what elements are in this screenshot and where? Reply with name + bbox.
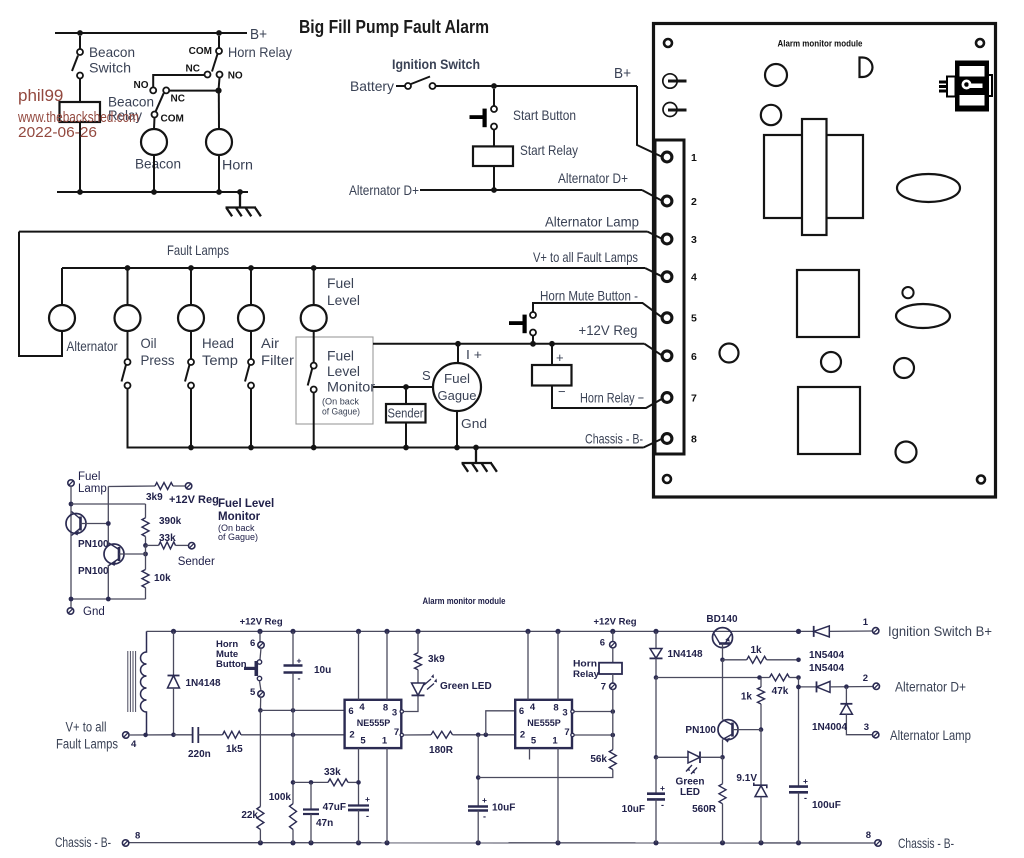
node horn relay COM tap: [216, 30, 222, 36]
svg-text:Horn: Horn: [573, 659, 597, 670]
node +12V rail junction: [555, 629, 560, 634]
capacitor 100uF: [798, 678, 800, 787]
svg-text:9.1V: 9.1V: [736, 773, 757, 784]
wire horn mute button to terminal 5: [533, 303, 663, 318]
wire pin7 to 56k node: [574, 734, 613, 736]
svg-text:7: 7: [601, 682, 606, 693]
terminal 3 Alternator Lamp: [873, 732, 879, 738]
node beacon relay coil gnd: [77, 189, 83, 195]
contact arm horn relay COM-NC: [212, 54, 218, 72]
switch Air Filter: [248, 359, 254, 365]
wire sender stub: [405, 387, 407, 404]
svg-text:+: +: [482, 795, 487, 805]
svg-text:1: 1: [863, 617, 869, 628]
svg-text:Horn Relay −: Horn Relay −: [580, 391, 644, 406]
svg-text:1N5404: 1N5404: [809, 663, 844, 674]
wire rail right of diode to terminal 1: [829, 630, 872, 632]
resistor 33k (IC1): [328, 779, 348, 786]
terminal 7: [662, 393, 672, 403]
wire fuel lamp vertical: [70, 486, 72, 608]
terminal 5: [662, 313, 672, 323]
node 47n junction: [309, 780, 314, 785]
svg-text:Alternator Lamp: Alternator Lamp: [545, 215, 639, 230]
component D-shaped part: [860, 58, 873, 78]
lamp Alternator: [49, 305, 75, 331]
node beacon switch tap: [77, 30, 83, 36]
wire relay terminal 7 down: [612, 689, 614, 749]
svg-text:Ignition Switch B+: Ignition Switch B+: [888, 624, 992, 639]
connector pin lower: [663, 103, 677, 117]
wire pin7 to 180R: [404, 734, 432, 736]
transistor Q2 PN100: [104, 544, 124, 564]
wire V+ fault lamp rail: [62, 267, 645, 269]
node B- rail junction: [758, 840, 763, 845]
wire sender to chassis: [405, 423, 407, 448]
inductor pickup coil: [141, 631, 147, 734]
node +12V rail junction: [290, 629, 295, 634]
zener 9.1V: [760, 730, 762, 786]
contact NO beacon relay: [150, 87, 156, 93]
wire 22k to B- rail: [259, 829, 261, 842]
node 33k junction: [291, 780, 296, 785]
node BD140 collector: [720, 658, 725, 663]
svg-text:S: S: [422, 368, 431, 383]
svg-text:8: 8: [691, 434, 697, 446]
svg-text:Big Fill Pump Fault Alarm: Big Fill Pump Fault Alarm: [299, 16, 489, 37]
node B- rail junction: [720, 840, 725, 845]
wire Head Temp lamp stub: [190, 268, 192, 305]
svg-text:V+ to all Fault Lamps: V+ to all Fault Lamps: [533, 250, 638, 265]
diode 1N4004: [845, 687, 847, 704]
box Fuel Level Monitor: [296, 337, 373, 424]
node pin2/100k junction: [291, 733, 296, 738]
svg-text:Alternator D+: Alternator D+: [349, 183, 419, 198]
svg-text:-: -: [366, 811, 369, 821]
capacitor 47n: [310, 782, 312, 809]
svg-text:Filter: Filter: [261, 353, 294, 368]
svg-text:Oil: Oil: [141, 336, 157, 351]
wire horn relay NO down: [219, 78, 220, 91]
resistor 180R: [431, 731, 453, 738]
svg-text:47uF: 47uF: [323, 802, 346, 813]
wire +12V to terminal 6: [645, 344, 663, 356]
svg-text:560R: 560R: [692, 804, 717, 815]
node B- rail junction: [258, 840, 263, 845]
svg-text:Alternator Lamp: Alternator Lamp: [890, 728, 971, 743]
svg-text:8: 8: [383, 703, 388, 714]
wire NC to beacon-relay NO: [153, 75, 204, 87]
resistor 56k: [609, 750, 616, 770]
terminal 2 Alternator D+: [873, 683, 879, 689]
node B- rail junction: [653, 840, 658, 845]
svg-text:Chassis - B-: Chassis - B-: [55, 835, 111, 850]
svg-text:I +: I +: [466, 348, 482, 362]
svg-text:2022-06-26: 2022-06-26: [18, 124, 97, 141]
pin IC1 pin7: [400, 733, 403, 736]
capacitor 10uF (left filter): [655, 757, 657, 793]
wire pin3 to LED: [404, 695, 419, 711]
wire node to Q2 base: [145, 545, 147, 569]
LED Green LED (IC1): [417, 670, 419, 683]
svg-text:+: +: [365, 794, 370, 804]
svg-text:3: 3: [562, 708, 567, 719]
svg-text:56k: 56k: [590, 754, 607, 765]
svg-text:Alternator: Alternator: [67, 339, 118, 354]
node B- rail junction: [356, 840, 361, 845]
IC U1 NE555P: [345, 700, 402, 748]
node +12V rail junction: [415, 629, 420, 634]
box Sender: [386, 404, 426, 423]
svg-text:6: 6: [691, 351, 697, 363]
svg-text:PN100: PN100: [78, 539, 109, 550]
node Air Filter lamp tap: [248, 265, 254, 271]
svg-text:Alternator D+: Alternator D+: [558, 171, 628, 186]
wire Alternator D+: [420, 189, 642, 191]
svg-text:Fuel Level: Fuel Level: [218, 498, 274, 510]
svg-text:2: 2: [863, 673, 868, 684]
node coil bottom: [143, 733, 148, 738]
capacitor 10uF timing: [468, 805, 488, 808]
button Start Button: [493, 89, 495, 106]
svg-text:Alarm monitor module: Alarm monitor module: [423, 596, 506, 606]
component round cap C1: [765, 64, 787, 86]
svg-text:7: 7: [691, 393, 697, 405]
resistor 1k (PN100 base): [760, 678, 762, 688]
svg-text:+: +: [556, 350, 564, 365]
terminal 6 horn mute: [258, 642, 264, 648]
wire left loop (alternator lamp bottom): [19, 232, 62, 356]
svg-text:-: -: [661, 800, 664, 810]
wire chassis rail: [127, 447, 644, 449]
svg-text:COM: COM: [161, 114, 184, 125]
node +12V rail junction: [610, 629, 615, 634]
wire 390k to node: [145, 537, 147, 546]
wire gnd rail: [71, 598, 146, 600]
svg-text:1k: 1k: [750, 645, 762, 656]
wire Oil Press lamp to switch: [127, 331, 129, 359]
svg-text:Relay: Relay: [573, 669, 600, 680]
wire B+ to module terminal 1: [637, 86, 663, 157]
wire Air Filter lamp stub: [250, 268, 252, 305]
svg-text:4: 4: [691, 272, 697, 284]
svg-text:-: -: [483, 812, 486, 822]
svg-text:Horn Mute Button -: Horn Mute Button -: [540, 289, 638, 304]
terminal 6: [662, 351, 672, 361]
wire alternator lamp top stub: [61, 268, 63, 305]
wire 10k to gnd rail: [145, 588, 147, 599]
wire fuel lamp to monitor switch: [313, 331, 315, 363]
wire NC beacon relay to horn branch: [169, 90, 219, 92]
svg-text:Press: Press: [141, 353, 175, 368]
svg-text:NE555P: NE555P: [357, 718, 391, 728]
resistor 390k: [142, 518, 149, 537]
node Oil Press lamp tap: [125, 265, 131, 271]
svg-text:+: +: [297, 656, 302, 666]
wire to 390k: [145, 504, 147, 518]
svg-text:+: +: [660, 783, 665, 793]
svg-text:Beacon: Beacon: [135, 157, 181, 172]
svg-text:NC: NC: [171, 94, 185, 105]
svg-text:of Gague): of Gague): [322, 407, 360, 418]
relay coil Beacon Relay: [60, 102, 101, 122]
wire Q2 collector vertical: [107, 487, 109, 547]
svg-text:1N4148: 1N4148: [186, 678, 221, 689]
svg-text:phil99: phil99: [18, 86, 63, 105]
node ground tap: [237, 189, 243, 195]
node +12V rail junction: [356, 629, 361, 634]
wire beacon switch to relay coil: [79, 79, 81, 103]
wire sender S wire: [373, 386, 433, 388]
node B- rail junction: [476, 840, 481, 845]
svg-text:3: 3: [392, 708, 397, 719]
wire Oil Press lamp stub: [127, 268, 129, 305]
svg-text:NO: NO: [134, 80, 149, 91]
svg-text:10u: 10u: [314, 665, 331, 676]
svg-text:Green: Green: [676, 777, 705, 788]
svg-text:Fuel: Fuel: [444, 371, 470, 386]
node sender tap: [403, 384, 409, 390]
svg-text:Alarm monitor module: Alarm monitor module: [778, 39, 863, 49]
pin IC2 pin3: [571, 710, 574, 713]
svg-text:Lamp: Lamp: [78, 483, 107, 495]
svg-text:Fault Lamps: Fault Lamps: [167, 243, 229, 258]
svg-text:180R: 180R: [429, 745, 454, 756]
transistor Q3 BD140: [713, 628, 733, 648]
lamp Head Temp: [178, 305, 204, 331]
svg-text:8: 8: [866, 830, 871, 841]
wire chassis rail to terminal 8: [644, 439, 663, 448]
svg-text:Level: Level: [327, 293, 360, 308]
svg-text:Monitor: Monitor: [327, 380, 375, 395]
wire fuel level lamp stub: [313, 268, 315, 305]
svg-text:of Gague): of Gague): [218, 532, 258, 542]
svg-text:1N4004: 1N4004: [812, 722, 847, 733]
node +12V rail junction: [171, 629, 176, 634]
wire branch to 390k: [71, 503, 146, 505]
terminal strip: [655, 140, 684, 454]
wire alternator lamp return rail: [19, 231, 648, 233]
wire horn lamp to bottom rail: [218, 155, 220, 192]
pin IC1 pin3 output: [400, 710, 403, 713]
node chassis junction: [188, 445, 194, 451]
diode 1N5404 (D+ feed): [816, 681, 818, 692]
terminal 8: [662, 434, 672, 444]
svg-text:47k: 47k: [772, 686, 789, 697]
component round cap C2: [761, 105, 781, 125]
svg-text:Monitor: Monitor: [218, 511, 261, 523]
resistor 10k: [142, 570, 149, 588]
node gnd rail left: [69, 597, 74, 602]
relay Horn Relay (bottom): [612, 631, 614, 641]
connector pin upper: [663, 74, 677, 88]
wire IC2 pin6 loop: [486, 711, 515, 735]
svg-text:Fuel: Fuel: [78, 471, 100, 483]
capacitor 47uF: [348, 804, 369, 806]
node chassis junction: [454, 445, 460, 451]
capacitor 220n: [174, 734, 193, 736]
svg-text:B+: B+: [250, 26, 267, 43]
node B- rail junction: [555, 840, 560, 845]
node Q2 emitter gnd: [106, 597, 111, 602]
node fuel gauge I+ tap: [455, 341, 461, 347]
lamp Beacon: [141, 129, 167, 155]
svg-text:100uF: 100uF: [812, 800, 841, 811]
svg-text:220n: 220n: [188, 749, 211, 760]
wire 33k to pin5 node: [348, 781, 359, 783]
contact arm beacon relay COM-NC: [155, 93, 163, 112]
wire 10u to pin6 node and down: [292, 673, 294, 804]
node Q2 base junction: [143, 552, 148, 557]
hole board corner top-right: [976, 39, 984, 47]
svg-text:1: 1: [691, 152, 697, 164]
resistor 1k5: [223, 731, 242, 738]
ground: [475, 448, 477, 463]
svg-text:PN100: PN100: [78, 566, 109, 577]
contact NC beacon relay: [163, 87, 169, 93]
svg-text:7: 7: [564, 727, 569, 738]
node alternator feed: [796, 685, 801, 690]
wire Head Temp lamp to switch: [190, 331, 192, 359]
terminal 4: [662, 272, 672, 282]
terminal 3: [662, 234, 672, 244]
switch Oil Press: [125, 359, 131, 365]
svg-text:3k9: 3k9: [428, 654, 445, 665]
contact NO horn relay: [217, 72, 223, 78]
button Horn Mute (bottom): [259, 631, 261, 641]
wire Air Filter lamp to switch: [250, 331, 252, 359]
ground: [239, 192, 241, 207]
node horn mute tap: [530, 341, 536, 347]
svg-text:33k: 33k: [324, 767, 341, 778]
svg-text:100k: 100k: [269, 792, 292, 803]
component round part left: [720, 344, 739, 363]
svg-text:Horn: Horn: [222, 158, 253, 173]
wire IC2 pin1 to B-: [557, 748, 559, 843]
svg-text:5: 5: [360, 736, 366, 747]
wire gauge gnd to chassis: [456, 411, 458, 448]
contact NC horn relay: [205, 72, 211, 78]
switch Beacon Switch: [79, 36, 81, 49]
node pin6 wire junction: [258, 708, 263, 713]
IC U2 NE555P: [515, 700, 572, 748]
wire 180R to IC2 pin2: [453, 734, 516, 736]
node base network left: [654, 675, 659, 680]
node Q1 collector: [69, 502, 74, 507]
wire 10uF timing cap branch: [477, 735, 479, 807]
svg-text:NO: NO: [228, 71, 243, 82]
hole board corner bottom-left: [663, 475, 671, 483]
relay coil Start Relay: [473, 146, 513, 166]
wire IC1 pin8 stub: [386, 631, 388, 699]
svg-text:-: -: [298, 674, 301, 684]
node 47k left: [757, 675, 762, 680]
wire relay coil to bottom rail: [79, 122, 81, 192]
terminal 2: [662, 196, 672, 206]
wire ignition switch to B+ corner: [436, 85, 638, 87]
wire Oil Press switch to chassis rail: [127, 389, 129, 448]
node horn lamp gnd: [216, 189, 222, 195]
node 56k junction: [476, 775, 481, 780]
node start relay / D+ junction: [491, 187, 497, 193]
svg-text:+12V Reg: +12V Reg: [594, 617, 637, 628]
svg-text:B+: B+: [614, 66, 631, 82]
wire horn mute to +12V rail: [532, 336, 534, 344]
wire alternator D+ feed: [799, 686, 817, 688]
node B- rail junction: [384, 840, 389, 845]
switch Fuel Level Monitor contact: [311, 363, 317, 369]
svg-text:Horn Relay: Horn Relay: [228, 45, 292, 60]
svg-text:4: 4: [359, 702, 365, 713]
wire IC2 pin5 stub: [529, 748, 531, 759]
hole board corner bottom-right: [977, 476, 985, 484]
diode 1N4148 (relay clamp): [655, 631, 657, 648]
node +12V rail junction: [384, 629, 389, 634]
svg-text:PN100: PN100: [685, 725, 716, 736]
node B- rail junction: [796, 840, 801, 845]
svg-text:1k5: 1k5: [226, 744, 243, 755]
svg-text:1: 1: [382, 736, 388, 747]
wire beacon lamp to bottom rail: [153, 155, 155, 192]
node Q4 emitter / LED: [720, 755, 725, 760]
component relay block upper: [797, 270, 859, 337]
node B- rail junction: [290, 840, 295, 845]
svg-text:6: 6: [519, 706, 524, 717]
terminal 8 Chassis B- (right): [875, 840, 881, 846]
component small hole: [902, 287, 913, 298]
component ellipse cap top: [897, 174, 960, 202]
svg-text:1k: 1k: [741, 692, 753, 703]
component round part bottom: [896, 442, 917, 463]
svg-text:1N4148: 1N4148: [668, 649, 703, 660]
resistor 100k: [290, 804, 297, 830]
node 56k top: [611, 733, 616, 738]
svg-text:8: 8: [553, 703, 558, 714]
contact Horn Relay COM: [218, 36, 220, 48]
node chassis junction: [248, 445, 254, 451]
transistor Q1 PN100: [66, 514, 86, 534]
wire gauge I+ stub: [457, 344, 459, 364]
svg-text:22k: 22k: [241, 810, 258, 821]
terminal 1: [662, 152, 672, 162]
wire horn branch to horn lamp: [218, 91, 220, 129]
wire V+ rail to terminal 4: [645, 268, 663, 277]
svg-text:Head: Head: [202, 336, 234, 351]
transformer core: [127, 651, 129, 712]
node +12V rail junction: [796, 629, 801, 634]
node LED drive: [654, 755, 659, 760]
lamp Horn: [206, 129, 232, 155]
wire +12V top rail: [147, 630, 814, 632]
svg-text:2: 2: [520, 730, 525, 741]
terminal 8 Chassis B- (left): [122, 840, 128, 846]
wire battery stub: [396, 85, 405, 87]
node +12V rail junction: [525, 629, 530, 634]
capacitor 10u rail filter: [292, 631, 294, 664]
resistor 3k9 LED: [417, 631, 419, 652]
svg-text:Start Relay: Start Relay: [520, 143, 578, 158]
node 47k right: [796, 675, 801, 680]
svg-text:Ignition Switch: Ignition Switch: [392, 56, 480, 72]
svg-text:1N5404: 1N5404: [809, 650, 844, 661]
diode 1N5404 (B+ feed): [813, 626, 815, 637]
svg-text:Gnd: Gnd: [83, 606, 105, 618]
svg-text:+: +: [803, 776, 808, 786]
svg-text:Chassis - B-: Chassis - B-: [898, 836, 954, 851]
component ellipse cap middle: [896, 304, 950, 328]
node +12V rail junction: [257, 629, 262, 634]
wire Head Temp switch to chassis rail: [190, 389, 192, 448]
node pin6/cap junction: [291, 708, 296, 713]
